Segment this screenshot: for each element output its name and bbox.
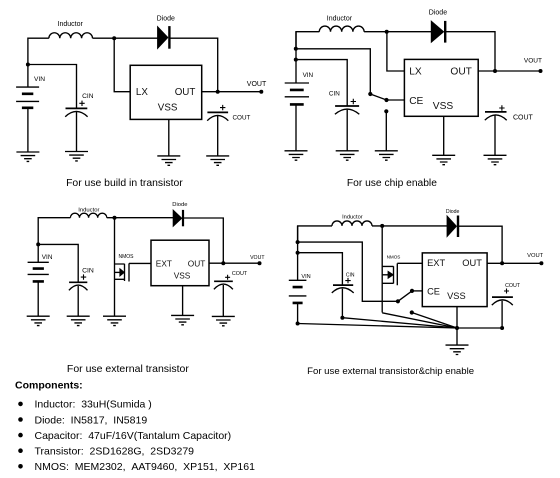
wire: VSS to ground C3	[182, 286, 184, 316]
svg-text:OUT: OUT	[175, 87, 196, 98]
svg-text:VOUT: VOUT	[247, 81, 267, 88]
svg-text:NMOS: MEM2302, AAT9460, XP1: NMOS: MEM2302, AAT9460, XP151, XP161	[35, 461, 256, 473]
battery VIN C1	[16, 87, 39, 101]
wire: VIN to CIN C1	[28, 65, 77, 109]
svg-text:COUT: COUT	[505, 283, 521, 289]
wire: lower contact diagonal to ground node C4	[412, 313, 457, 329]
wire: LX feed from junction C2	[387, 32, 405, 71]
node ground C4	[455, 326, 459, 330]
svg-text:VOUT: VOUT	[250, 255, 265, 261]
wire: COUT bottom to ground node C4	[457, 327, 502, 329]
svg-text:EXT: EXT	[427, 258, 445, 268]
wire: top rail left segment C3	[38, 218, 70, 245]
switch pivot dot C4	[396, 299, 400, 303]
wire: ground node to ground symbol C4	[456, 328, 458, 345]
svg-text:Diode: Diode	[172, 202, 187, 208]
wire: left rail C4	[297, 226, 299, 280]
wire: battery diagonal to ground node C4	[298, 324, 457, 329]
wire: left rail C2	[295, 32, 297, 83]
battery VIN C4	[289, 280, 307, 296]
svg-text:VIN: VIN	[34, 76, 45, 83]
wire: battery to ground C3	[37, 281, 39, 316]
plus CIN C3	[81, 274, 86, 279]
svg-text:EXT: EXT	[156, 258, 172, 268]
node VOUT terminal C1	[259, 90, 263, 94]
svg-text:CE: CE	[409, 96, 423, 107]
plus COUT C3	[225, 275, 230, 280]
plus CIN C1	[79, 101, 84, 106]
wire: COUT to bottom C4	[501, 301, 503, 328]
diode D1	[158, 27, 168, 49]
node CE C2	[384, 98, 388, 102]
node VIN C3	[36, 242, 40, 246]
bullet 2	[18, 417, 23, 422]
wire: CIN to ground C1	[76, 112, 78, 152]
IC box U2	[404, 59, 478, 116]
wire: OUT to VOUT C4	[487, 262, 541, 264]
IC box U3	[151, 240, 209, 286]
svg-text:Diode: IN5817, IN5819: Diode: IN5817, IN5819	[35, 414, 148, 426]
ground VSS C1	[157, 156, 180, 165]
svg-text:Inductor: Inductor	[342, 215, 363, 221]
svg-text:Inductor: 33uH(Sumida ): Inductor: 33uH(Sumida )	[35, 399, 152, 411]
svg-text:CIN: CIN	[329, 91, 340, 98]
svg-text:OUT: OUT	[188, 258, 206, 268]
wire: VSS to ground node C4	[456, 307, 458, 328]
svg-text:Diode: Diode	[429, 9, 447, 16]
svg-text:VIN: VIN	[301, 274, 310, 280]
wire: inductor to diode C1	[93, 37, 158, 39]
svg-text:CE: CE	[427, 287, 440, 297]
svg-text:COUT: COUT	[513, 115, 534, 122]
wire: rail3 to CIN C2	[296, 60, 347, 106]
op-amp/IC box U1	[130, 65, 202, 119]
ground battery C1	[16, 152, 39, 161]
node rail2 C2	[294, 47, 298, 51]
bullet 4	[18, 448, 23, 453]
svg-text:Diode: Diode	[157, 16, 175, 23]
ground CIN C3	[67, 316, 90, 325]
node rail3 C4	[296, 251, 300, 255]
wire: VSS to ground C2	[443, 116, 445, 155]
wire: top rail left segment C2	[296, 32, 319, 49]
wire: CIN to ground C2	[346, 110, 348, 151]
node: inductor/diode junction C2	[385, 30, 389, 34]
wire: inductor to diode C3	[107, 217, 173, 219]
wire: VIN node to battery C1	[27, 65, 29, 88]
svg-text:For use external transistor&ch: For use external transistor&chip enable	[307, 366, 474, 377]
wire: gate to EXT C3	[129, 262, 151, 264]
svg-text:OUT: OUT	[450, 67, 472, 78]
IC box U4	[422, 253, 487, 307]
wire: NMOS source diagonal to ground node C4	[382, 313, 457, 328]
node CIN bottom C4	[340, 316, 344, 320]
wire: VIN node to battery C3	[37, 244, 39, 262]
wire: NMOS drain from junction C4	[381, 226, 383, 313]
bullet 5	[18, 464, 23, 469]
node OUT/COUT junction C4	[500, 261, 504, 265]
diode D2	[431, 21, 443, 42]
transistor Q4 NMOS	[382, 263, 397, 285]
bullet 1	[18, 402, 23, 407]
battery VIN C3	[28, 262, 49, 274]
diode D4	[447, 216, 456, 236]
wire: top rail left segment C4	[298, 226, 332, 242]
wire: diode to right corner C4	[458, 226, 502, 263]
capacitor CIN C3	[69, 281, 87, 283]
ground COUT C2	[484, 155, 507, 164]
switch contact lower C2	[384, 109, 388, 113]
wire: diode to right corner C3	[183, 218, 223, 263]
node battery bottom C4	[296, 322, 300, 326]
capacitor CIN C2	[335, 105, 359, 107]
capacitor COUT C2	[485, 111, 507, 113]
wire: CIN to bottom node C4	[341, 289, 343, 318]
svg-text:NMOS: NMOS	[119, 254, 135, 260]
svg-text:Diode: Diode	[446, 209, 460, 215]
diode D3	[173, 210, 182, 226]
ground VSS C3	[171, 315, 194, 324]
wire: CIN to ground C3	[77, 286, 79, 316]
plus CIN C4	[345, 278, 350, 283]
capacitor CIN C1	[66, 107, 88, 109]
capacitor COUT C1	[207, 111, 228, 113]
svg-text:VSS: VSS	[174, 271, 191, 281]
ground common C4	[446, 345, 469, 354]
wire: OUT to VOUT C3	[209, 262, 260, 264]
svg-text:VIN: VIN	[42, 254, 53, 261]
svg-text:VIN: VIN	[303, 72, 314, 79]
wire: CE node to box C4	[412, 290, 422, 292]
wire: rail2 to switch feed C2	[296, 49, 370, 93]
wire: COUT to ground C3	[222, 285, 224, 316]
wire: LX feed from junction C1	[114, 38, 130, 91]
switch arm C4	[398, 291, 412, 301]
svg-text:For use build in transistor: For use build in transistor	[66, 178, 183, 189]
wire: OUT to VOUT C1	[202, 91, 262, 93]
svg-text:CIN: CIN	[346, 273, 355, 279]
plus COUT C4	[504, 289, 509, 294]
svg-text:VSS: VSS	[158, 102, 178, 113]
wire: top rail left segment C1	[28, 38, 49, 64]
wire: VSS to ground C1	[168, 119, 170, 155]
svg-text:VSS: VSS	[447, 291, 466, 301]
node COUT bottom C4	[500, 326, 504, 330]
ground battery C2	[285, 151, 308, 160]
wire: battery to bottom node C4	[297, 303, 299, 324]
node rail3 C2	[294, 58, 298, 62]
node rail2 C4	[296, 240, 300, 244]
svg-text:For use chip enable: For use chip enable	[347, 178, 437, 189]
svg-text:VOUT: VOUT	[527, 253, 544, 259]
svg-text:LX: LX	[409, 67, 422, 78]
svg-text:VOUT: VOUT	[524, 57, 542, 64]
svg-text:COUT: COUT	[233, 115, 251, 122]
node VIN C1	[26, 63, 30, 67]
wire: VIN to CIN C3	[38, 244, 78, 282]
inductor L4	[332, 221, 372, 226]
wire: diode to right corner C1	[169, 38, 217, 91]
ground battery C3	[27, 316, 50, 325]
svg-text:CIN: CIN	[82, 93, 94, 100]
svg-text:CIN: CIN	[82, 267, 94, 274]
wire: NMOS drain from junction C3	[114, 218, 116, 317]
svg-text:Inductor: Inductor	[58, 21, 84, 28]
wire: lower contact to ground C2	[385, 111, 387, 151]
wire: diode to right corner C2	[445, 32, 495, 71]
node OUT/COUT junction C1	[216, 90, 220, 94]
inductor L3	[70, 213, 106, 218]
wire: gate to EXT C4	[397, 262, 422, 264]
svg-text:LX: LX	[136, 87, 148, 98]
node OUT/COUT junction C3	[221, 261, 225, 265]
plus COUT C2	[499, 105, 504, 110]
ground COUT C1	[206, 156, 229, 165]
wire: OUT to VOUT C2	[478, 70, 540, 72]
ground NMOS source C3	[103, 316, 126, 325]
wire: COUT to ground C1	[217, 116, 219, 156]
node: inductor/diode junction C3	[113, 216, 117, 220]
svg-text:Inductor: Inductor	[78, 208, 99, 214]
wire: rail2 to switch pivot C4	[298, 242, 398, 301]
node VOUT terminal C2	[539, 69, 543, 73]
inductor L2	[319, 26, 364, 32]
svg-text:Components:: Components:	[15, 380, 83, 392]
battery VIN C2	[285, 83, 309, 97]
switch lower contact C4	[410, 310, 414, 314]
wire: inductor to diode C4	[372, 225, 447, 227]
ground VSS C2	[432, 155, 455, 164]
wire: battery to ground C1	[27, 108, 29, 152]
node VOUT terminal C4	[539, 261, 543, 265]
inductor L1	[49, 33, 93, 38]
transistor Q3 NMOS	[115, 263, 130, 281]
svg-text:Transistor: 2SD1628G, 2SD327: Transistor: 2SD1628G, 2SD3279	[35, 446, 195, 458]
node: inductor/diode junction C1	[112, 36, 116, 40]
ground COUT C3	[212, 316, 235, 325]
svg-text:NMOS: NMOS	[387, 254, 401, 259]
switch arm C2	[370, 94, 386, 100]
wire: battery to ground C2	[295, 104, 297, 150]
ground switch C2	[375, 151, 398, 160]
svg-text:VSS: VSS	[433, 101, 454, 112]
svg-text:COUT: COUT	[232, 271, 248, 277]
wire: COUT to ground C2	[494, 116, 496, 156]
bullet 3	[18, 433, 23, 438]
plus COUT C1	[220, 105, 225, 110]
node VOUT terminal C3	[258, 261, 262, 265]
switch contact upper C2	[368, 92, 372, 96]
node OUT/COUT junction C2	[493, 69, 497, 73]
svg-text:For use external transistor: For use external transistor	[67, 363, 189, 375]
wire: inductor to diode C2	[364, 31, 431, 33]
svg-text:Capacitor: 47uF/16V(Tantalum: Capacitor: 47uF/16V(Tantalum Capacitor)	[35, 430, 232, 442]
node: inductor/diode junction C4	[380, 224, 384, 228]
capacitor CIN C4	[333, 284, 353, 286]
capacitor COUT C4	[492, 296, 513, 298]
node CE C4	[410, 289, 414, 293]
wire: CIN diagonal to ground node C4	[342, 318, 457, 328]
ground CIN C1	[65, 152, 88, 161]
capacitor COUT C3	[214, 280, 233, 282]
plus CIN C2	[351, 99, 356, 104]
svg-text:Inductor: Inductor	[327, 15, 353, 22]
ground CIN C2	[336, 151, 359, 160]
wire: CE node to box C2	[387, 99, 405, 101]
svg-text:OUT: OUT	[462, 258, 482, 268]
wire: rail3 to CIN C4	[298, 253, 343, 285]
